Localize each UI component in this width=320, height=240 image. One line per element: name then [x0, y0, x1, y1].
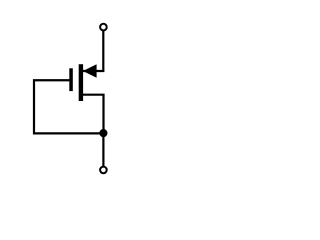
terminal T2 (bottom, open circle) [100, 167, 107, 174]
terminal T1 (top, open circle) [100, 24, 107, 31]
junction node (filled dot) [99, 129, 107, 137]
wire junction to bottom terminal [102, 133, 104, 167]
wire source lead (channel bottom to riser) [81, 95, 104, 133]
arrow (points into channel, PMOS-style) [83, 64, 97, 77]
wire gate lead + feedback loop (gate to bottom node) [34, 80, 103, 133]
wire drain lead (horizontal into channel) [81, 70, 104, 72]
transistor Q1 channel bar [79, 64, 83, 101]
transistor Q1 gate bar [69, 68, 73, 91]
wire drain riser (top terminal to drain lead) [102, 30, 104, 71]
